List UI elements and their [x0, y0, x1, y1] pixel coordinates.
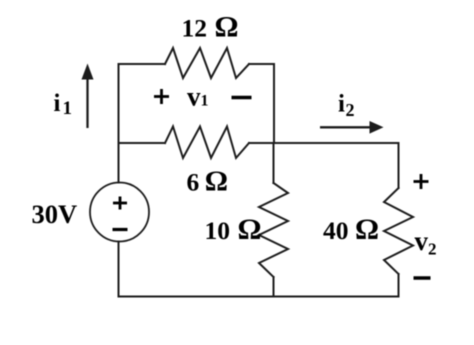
voltage source minus sign — [113, 228, 128, 231]
svg-text:10Ω: 10Ω — [205, 213, 262, 246]
current arrow i2 — [320, 121, 384, 134]
svg-text:i2: i2 — [338, 91, 354, 121]
svg-text:12Ω: 12Ω — [182, 11, 239, 44]
wire: 10Ω bottom lead — [273, 277, 275, 297]
polarity minus of v2 — [414, 276, 431, 279]
wire: top-left corner and left rail upper — [119, 64, 166, 183]
svg-text:30V: 30V — [32, 199, 78, 229]
svg-text:6Ω: 6Ω — [187, 166, 228, 198]
resistor R1 12Ω zigzag — [165, 48, 249, 78]
wire: 6Ω right lead — [249, 142, 274, 144]
svg-text:v2: v2 — [415, 226, 437, 259]
wire: 12Ω right lead and right mesh rail — [249, 64, 274, 143]
current arrow i1 — [82, 64, 94, 129]
wire: bottom rail — [119, 296, 399, 298]
resistor R3 10Ω zigzag — [259, 183, 288, 277]
voltage source 30V circle — [90, 183, 149, 242]
wire: node to 40Ω top lead — [274, 143, 399, 188]
resistor R4 40Ω zigzag — [384, 188, 413, 274]
wire: 40Ω bottom lead — [398, 274, 400, 297]
wire: 10Ω top lead — [273, 143, 275, 183]
polarity minus of v1 — [232, 96, 252, 99]
wire: 6Ω left lead — [119, 142, 166, 144]
polarity plus of v2 — [414, 174, 429, 189]
polarity plus of v1 — [154, 89, 169, 104]
svg-text:40Ω: 40Ω — [323, 213, 379, 246]
wire: source bottom lead / left rail lower — [118, 242, 120, 297]
svg-text:i1: i1 — [54, 90, 72, 119]
svg-text:v1: v1 — [187, 82, 209, 112]
voltage source plus sign — [113, 197, 127, 210]
resistor R2 6Ω zigzag — [165, 127, 249, 159]
